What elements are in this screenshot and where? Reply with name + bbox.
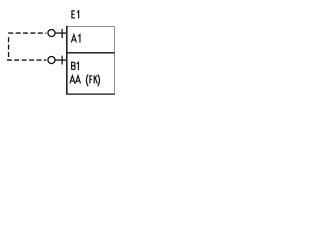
pin tick bottom bbox=[61, 56, 63, 65]
pin tick top bbox=[61, 29, 63, 38]
wire dashed top bbox=[8, 32, 46, 34]
wire bottom solid bbox=[55, 59, 67, 61]
box left edge (black) bbox=[66, 26, 68, 95]
label A1 bbox=[71, 35, 80, 43]
connector circle bottom bbox=[48, 57, 55, 64]
wire dashed vertical bbox=[8, 37, 10, 60]
label B1 bbox=[72, 62, 79, 70]
connector circle top bbox=[48, 30, 55, 37]
box bottom edge (black) bbox=[66, 93, 114, 95]
wire top solid bbox=[55, 32, 67, 34]
wire dashed bottom bbox=[7, 59, 46, 61]
label E1 bbox=[72, 11, 79, 19]
label AA (FK) bbox=[70, 74, 100, 86]
box divider bbox=[66, 52, 114, 54]
device box outline (gray) bbox=[67, 27, 115, 95]
